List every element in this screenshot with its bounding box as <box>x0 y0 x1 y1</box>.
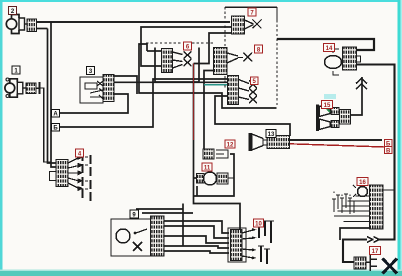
svg-text:16: 16 <box>359 180 366 186</box>
svg-text:14: 14 <box>326 46 333 52</box>
svg-text:12: 12 <box>227 143 234 149</box>
svg-text:11: 11 <box>204 166 211 172</box>
svg-text:17: 17 <box>372 249 379 255</box>
svg-text:10: 10 <box>255 222 262 228</box>
svg-text:15: 15 <box>324 103 331 109</box>
svg-text:Б: Б <box>53 126 58 132</box>
svg-text:13: 13 <box>268 132 275 138</box>
svg-text:В: В <box>386 148 391 154</box>
svg-text:A: A <box>53 112 58 118</box>
